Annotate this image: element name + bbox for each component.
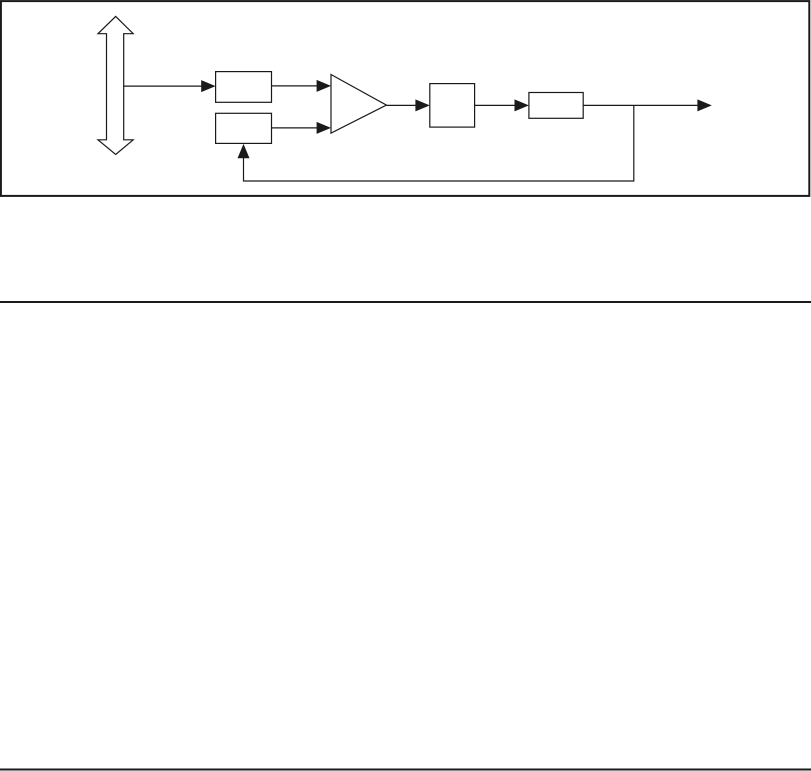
horizontal rule footer: [0, 769, 811, 771]
arrowhead into block 4: [515, 99, 529, 111]
arrowhead into block 1: [201, 80, 215, 92]
wire block 1 to amplifier input: [272, 85, 318, 87]
horizontal rule upper: [0, 301, 811, 303]
output arrowhead: [697, 99, 711, 111]
arrowhead into square block: [415, 99, 429, 111]
bidirectional bus arrow: [98, 16, 133, 154]
arrowhead into amplifier bottom input: [317, 122, 331, 134]
wire block 2 to amplifier input: [272, 127, 318, 129]
block 4: [529, 93, 583, 119]
wire bus to block 1: [124, 85, 203, 87]
square block: [430, 84, 475, 128]
wire amplifier to square block: [386, 104, 416, 106]
arrowhead into block 2 bottom: [238, 144, 250, 158]
output wire: [583, 104, 698, 106]
figure frame: [1, 1, 809, 196]
amplifier triangle: [331, 75, 386, 134]
block 2: [216, 113, 272, 143]
feedback wire: [244, 105, 634, 181]
wire square block to block 4: [475, 104, 516, 106]
block 1: [216, 72, 272, 103]
arrowhead into amplifier top input: [317, 80, 331, 92]
